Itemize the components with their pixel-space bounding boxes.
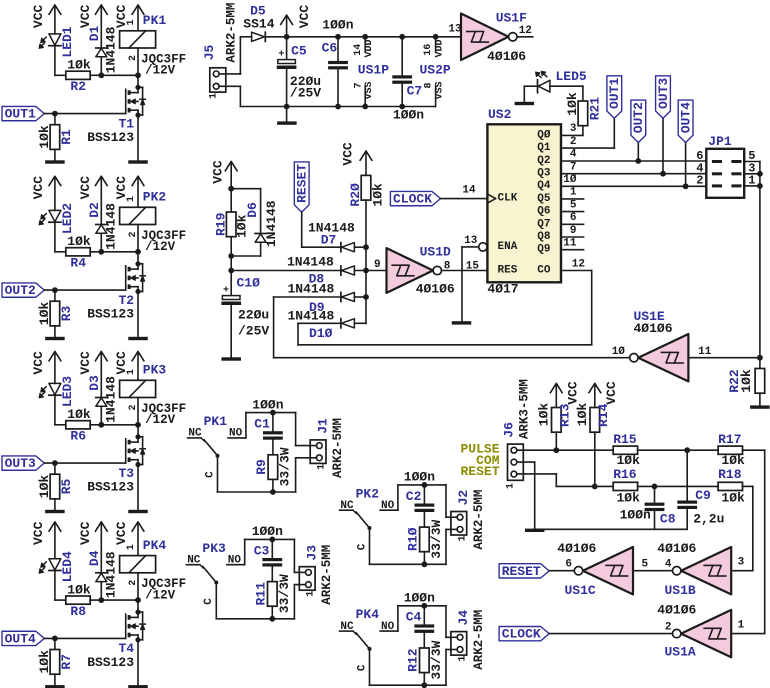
svg-text:11: 11 [563, 238, 577, 250]
diode D6 1N4148 [231, 189, 279, 256]
svg-text:2: 2 [696, 174, 703, 188]
diode D9 1N4148 [274, 282, 369, 316]
svg-text:22Øu: 22Øu [238, 308, 269, 323]
svg-text:VCC: VCC [297, 5, 312, 29]
wire [549, 570, 574, 572]
svg-text:ENA: ENA [498, 241, 518, 253]
svg-text:C3: C3 [254, 543, 270, 558]
wire (Q3 net) [561, 117, 706, 177]
wire (Q4 net) [561, 140, 706, 189]
wire [294, 539, 305, 572]
svg-text:2: 2 [570, 136, 577, 148]
resistor R17 10k [718, 432, 745, 468]
svg-text:BSS123: BSS123 [87, 480, 134, 495]
relay contact PK3 [186, 541, 244, 605]
net tag OUT2 [631, 100, 646, 142]
svg-text:1Øk: 1Øk [67, 58, 91, 73]
diode D5 SS14 [243, 4, 274, 42]
svg-text:RESET: RESET [502, 564, 541, 579]
wire [446, 650, 457, 686]
ground [45, 510, 65, 513]
resistor R7 10k [37, 638, 74, 685]
wire [446, 485, 457, 517]
inverter US1E 40106 [612, 309, 712, 381]
svg-text:1N4148: 1N4148 [104, 26, 119, 73]
svg-text:VCC: VCC [78, 351, 93, 375]
svg-text:D6: D6 [245, 202, 260, 218]
wire (J5 pin2 to VDD rail) [219, 37, 252, 74]
svg-text:ARK2-5MM: ARK2-5MM [472, 610, 486, 670]
svg-text:1Øk: 1Øk [565, 92, 580, 116]
svg-text:1: 1 [457, 656, 468, 662]
resistor R3 10k [37, 290, 74, 337]
relay contact PK4 [340, 607, 398, 671]
svg-text:C1: C1 [254, 417, 270, 432]
svg-text:BSS123: BSS123 [87, 130, 134, 145]
wire [296, 413, 317, 446]
power VCC arrow (LED3 branch) [31, 351, 61, 383]
svg-text:/12V: /12V [145, 64, 176, 78]
svg-text:3: 3 [738, 557, 745, 569]
svg-text:D1: D1 [87, 26, 102, 42]
wire [137, 398, 139, 425]
svg-text:VCC: VCC [78, 521, 93, 545]
svg-text:4Ø1Ø6: 4Ø1Ø6 [634, 321, 673, 336]
svg-text:LED3: LED3 [60, 376, 75, 407]
wire [137, 573, 139, 600]
svg-text:1ØØn: 1ØØn [404, 470, 435, 485]
resistor R11 33/3W [253, 567, 292, 619]
svg-text:PK3: PK3 [202, 541, 226, 556]
svg-text:C: C [204, 471, 216, 478]
svg-text:+: + [278, 49, 284, 60]
svg-text:1Øk: 1Øk [67, 234, 91, 249]
svg-text:C6: C6 [322, 41, 338, 56]
svg-text:4Ø1Ø6: 4Ø1Ø6 [416, 282, 455, 297]
ground [128, 160, 148, 163]
svg-text:1Øk: 1Øk [575, 403, 590, 427]
svg-text:1Øk: 1Øk [617, 491, 641, 506]
wire (source) [137, 465, 139, 510]
svg-text:CLOCK: CLOCK [502, 627, 541, 642]
net tag OUT3 [2, 456, 44, 471]
net tag OUT4 [2, 631, 44, 646]
svg-text:C: C [356, 664, 368, 671]
svg-text:R2Ø: R2Ø [348, 183, 363, 207]
capacitor C8 100n [620, 486, 676, 529]
resistor R4 10k [55, 234, 101, 271]
svg-text:1Øk: 1Øk [37, 125, 52, 149]
svg-text:1: 1 [570, 187, 577, 199]
svg-text:1Øk: 1Øk [37, 302, 52, 326]
pin stubs Q5-Q9 [561, 199, 584, 250]
svg-text:5: 5 [570, 199, 577, 211]
relay contact PK2 [340, 486, 398, 550]
svg-text:Q8: Q8 [537, 231, 551, 243]
inverter US1D 40106 [374, 245, 455, 297]
svg-text:BSS123: BSS123 [87, 307, 134, 322]
transistor T3 BSS123 [87, 434, 145, 494]
svg-text:VCC: VCC [341, 142, 356, 166]
svg-text:C1Ø: C1Ø [237, 276, 261, 291]
wire (OUT net) [44, 287, 125, 293]
svg-text:14: 14 [462, 184, 476, 196]
svg-text:US1P: US1P [358, 63, 389, 78]
power VCC arrow [280, 5, 312, 37]
wire [446, 529, 457, 564]
resistor R12 33/3W [405, 633, 444, 685]
svg-text:D7: D7 [321, 233, 337, 248]
power VCC arrow (PK1 coil branch) [114, 5, 145, 31]
svg-text:7: 7 [353, 82, 364, 88]
svg-text:R15: R15 [613, 432, 637, 447]
capacitor C3 100n [252, 524, 283, 566]
svg-text:J4: J4 [456, 610, 471, 626]
svg-text:R1: R1 [59, 129, 74, 145]
relay coil PK1 JQC3FF/12V [120, 13, 187, 78]
svg-text:ARK2-5MM: ARK2-5MM [224, 3, 238, 63]
ground [221, 357, 241, 360]
svg-text:1ØØn: 1ØØn [393, 108, 424, 123]
ground [128, 337, 148, 340]
svg-text:6: 6 [570, 212, 577, 224]
svg-text:R6: R6 [70, 429, 86, 444]
svg-text:LED4: LED4 [60, 551, 75, 582]
ground [452, 321, 472, 324]
power VCC arrow (PK2 coil branch) [114, 176, 145, 207]
wire VDD rail [265, 34, 461, 40]
power VCC arrow (LED2 branch) [31, 176, 61, 211]
net tag OUT3 [656, 76, 671, 118]
diode D3 1N4148 [87, 375, 119, 425]
resistor R10 33/3W [406, 512, 445, 564]
svg-text:1N4148: 1N4148 [288, 282, 335, 297]
capacitor C2 100n [404, 470, 435, 512]
capacitor C4 100n [404, 591, 435, 633]
svg-text:1N4148: 1N4148 [104, 376, 119, 423]
svg-text:1ØØn: 1ØØn [620, 508, 651, 523]
svg-text:R14: R14 [596, 403, 611, 427]
wire (NO to cap) [398, 482, 446, 510]
svg-text:12: 12 [519, 25, 532, 37]
power VCC arrow [210, 160, 237, 189]
svg-text:C5: C5 [291, 44, 307, 59]
net labels PULSE/COM/RESET [460, 442, 499, 479]
svg-text:16: 16 [423, 44, 434, 56]
svg-text:12: 12 [572, 258, 585, 270]
capacitor C5 220u/25V [277, 37, 322, 107]
wire (US1E out to D9) [274, 297, 630, 358]
svg-text:1: 1 [306, 591, 317, 597]
svg-text:C: C [356, 543, 368, 550]
svg-text:US1D: US1D [420, 245, 451, 260]
resistor R16 10k [613, 467, 640, 505]
resistor R18 10k [718, 467, 745, 505]
power VCC arrow (D4 branch) [78, 521, 108, 572]
capacitor C7 100n [392, 37, 424, 123]
net tag RESET (to D7) [294, 162, 309, 212]
svg-text:9: 9 [570, 225, 577, 237]
svg-text:CLK: CLK [498, 193, 518, 205]
wire (RESET row) [517, 474, 613, 489]
svg-text:1ØØn: 1ØØn [322, 18, 353, 33]
wire (drain) [137, 425, 139, 437]
svg-text:D1Ø: D1Ø [309, 326, 333, 341]
wire (CLK pin 14) [441, 198, 488, 200]
wire [137, 48, 139, 75]
diode D4 1N4148 [87, 550, 119, 600]
wire (diode common) [365, 247, 367, 323]
connector J6 ARK3-5MM [502, 379, 532, 489]
svg-text:1Øk: 1Øk [617, 453, 641, 468]
pin 13 label [448, 23, 462, 35]
LED LED2 [39, 203, 75, 234]
svg-text:LED1: LED1 [60, 26, 75, 57]
svg-text:OUT2: OUT2 [5, 283, 36, 298]
power VCC arrow [589, 381, 620, 407]
svg-text:VCC: VCC [114, 521, 129, 545]
wire (main node row) [231, 270, 341, 272]
svg-text:1Øk: 1Øk [371, 183, 386, 207]
wire (source) [137, 115, 139, 160]
svg-text:OUT4: OUT4 [5, 631, 36, 646]
svg-text:C7: C7 [407, 84, 423, 99]
svg-text:CLOCK: CLOCK [393, 192, 432, 207]
svg-text:1N4148: 1N4148 [288, 309, 335, 324]
svg-text:BSS123: BSS123 [87, 655, 134, 670]
resistor R19 10k [213, 189, 249, 256]
svg-text:R8: R8 [70, 604, 86, 619]
relay coil PK3 JQC3FF/12V [120, 363, 187, 428]
svg-text:1: 1 [738, 620, 745, 632]
svg-text:D4: D4 [87, 550, 102, 566]
wire (common rail) [370, 649, 447, 688]
transistor T4 BSS123 [87, 610, 145, 670]
resistor R20 10k [348, 175, 386, 247]
wire (Q0 to R21) [561, 134, 583, 136]
wire (PULSE row) [517, 447, 613, 453]
svg-text:ARK2-5MM: ARK2-5MM [331, 418, 345, 478]
svg-text:Q3: Q3 [537, 168, 551, 180]
svg-text:J1: J1 [316, 418, 331, 434]
diode D1 1N4148 [87, 26, 119, 76]
svg-text:OUT1: OUT1 [5, 107, 36, 122]
svg-text:1Øk: 1Øk [739, 369, 754, 393]
resistor R15 10k [613, 432, 640, 468]
wire (OUT net) [44, 636, 125, 642]
svg-text:14: 14 [353, 44, 364, 56]
svg-text:1ØØn: 1ØØn [404, 591, 435, 606]
svg-text:ARK2-5MM: ARK2-5MM [320, 545, 334, 605]
svg-text:C2: C2 [406, 489, 422, 504]
svg-text:3: 3 [570, 123, 577, 135]
svg-text:R9: R9 [254, 459, 269, 475]
wire (common rail) [370, 528, 447, 567]
svg-text:/12V: /12V [145, 589, 176, 603]
connector J3 ARK2-5MM [299, 545, 334, 605]
wire (Q2 net) [561, 140, 706, 164]
svg-text:7: 7 [570, 161, 577, 173]
transistor T2 BSS123 [87, 261, 145, 321]
LED LED3 [39, 376, 75, 407]
svg-text:1Ø: 1Ø [563, 174, 577, 186]
svg-text:US2P: US2P [420, 63, 451, 78]
svg-text:1Øk: 1Øk [721, 491, 745, 506]
wire (NO to cap) [246, 410, 296, 438]
svg-text:1: 1 [506, 483, 517, 489]
wire (filter ground rail) [535, 528, 688, 530]
net tag OUT2 [2, 283, 44, 298]
svg-text:LED2: LED2 [60, 203, 75, 234]
svg-text:VCC: VCC [604, 381, 619, 405]
svg-text:J2: J2 [456, 490, 471, 506]
wire (gate node) [98, 249, 141, 255]
svg-text:33/3W: 33/3W [429, 640, 444, 679]
svg-text:J3: J3 [305, 545, 320, 561]
svg-text:US2: US2 [488, 107, 512, 122]
svg-text:33/3W: 33/3W [277, 574, 292, 613]
svg-text:PK2: PK2 [143, 190, 167, 205]
svg-text:C9: C9 [695, 488, 711, 503]
power VCC arrow (PK3 coil branch) [114, 351, 145, 380]
svg-text:ARK2-5MM: ARK2-5MM [472, 490, 486, 550]
svg-text:1Øk: 1Øk [67, 407, 91, 422]
wire (drain) [137, 75, 139, 87]
power VCC arrow [550, 381, 581, 407]
ground [515, 102, 535, 105]
node (R19/D6) [228, 186, 234, 259]
svg-text:8: 8 [424, 82, 435, 88]
wire [550, 86, 583, 101]
resistor R13 10k [536, 403, 572, 451]
wire (source) [137, 292, 139, 337]
svg-text:RESET: RESET [460, 464, 499, 479]
svg-text:1N4148: 1N4148 [104, 203, 119, 250]
ground [45, 337, 65, 340]
diode D10 1N4148 [288, 309, 367, 342]
inverter US1B 40106 [657, 541, 744, 598]
svg-text:VCC: VCC [31, 176, 46, 200]
relay coil PK4 JQC3FF/12V [120, 538, 187, 603]
wire (OUT net) [44, 460, 125, 466]
wire (JP1 pins 5/3/1 common) [744, 162, 763, 358]
svg-text:C4: C4 [406, 610, 422, 625]
LED LED5 [536, 69, 587, 93]
svg-text:R12: R12 [405, 648, 420, 672]
resistor R22 10k [727, 358, 765, 406]
wire [638, 484, 719, 490]
wire (gate node) [98, 72, 141, 78]
wire (source) [137, 640, 139, 685]
wire (CO pin 12 to D10) [298, 271, 592, 345]
net tag CLOCK (output) [499, 627, 549, 642]
svg-text:6: 6 [565, 559, 572, 571]
resistor R6 10k [55, 407, 101, 444]
svg-text:Q5: Q5 [537, 193, 551, 205]
capacitor C1 100n [252, 397, 283, 439]
power VCC arrow (LED4 branch) [31, 521, 61, 558]
svg-text:VSS: VSS [364, 81, 375, 99]
power VCC arrow (D1 branch) [78, 5, 108, 48]
svg-text:4: 4 [570, 149, 577, 161]
svg-text:5: 5 [642, 559, 649, 571]
svg-text:4Ø1Ø6: 4Ø1Ø6 [557, 541, 596, 556]
resistor R9 33/3W [254, 440, 293, 492]
svg-text:1Øk: 1Øk [536, 403, 551, 427]
svg-text:PK3: PK3 [143, 363, 167, 378]
svg-text:R4: R4 [70, 256, 86, 271]
power VCC arrow [341, 142, 373, 175]
capacitor C6 100n [322, 18, 354, 107]
svg-text:VCC: VCC [31, 521, 46, 545]
wire (gate node) [98, 422, 141, 428]
ground [128, 685, 148, 688]
svg-text:JP1: JP1 [708, 134, 732, 149]
relay contact PK1 [188, 414, 246, 478]
svg-text:4Ø17: 4Ø17 [487, 281, 518, 296]
svg-text:1N4148: 1N4148 [287, 254, 334, 269]
IC US2 4017 [462, 107, 585, 296]
wire VSS rail [240, 104, 435, 110]
svg-text:1: 1 [126, 544, 137, 550]
svg-text:1: 1 [126, 19, 137, 25]
svg-text:OUT2: OUT2 [631, 102, 646, 133]
svg-text:33/3W: 33/3W [429, 520, 444, 559]
svg-text:/25V: /25V [290, 85, 321, 100]
wire [549, 633, 672, 635]
svg-text:RES: RES [498, 265, 518, 277]
svg-text:R7: R7 [59, 654, 74, 670]
wire (OUT net) [44, 111, 125, 117]
diode D7 1N4148 [308, 220, 369, 252]
svg-text:R11: R11 [253, 582, 268, 606]
svg-text:4: 4 [665, 559, 672, 571]
svg-text:OUT1: OUT1 [607, 78, 622, 109]
connector J5 ARK2-5MM [202, 3, 238, 99]
svg-text:US1A: US1A [665, 644, 696, 659]
svg-text:13: 13 [464, 235, 478, 247]
diode D8 1N4148 [287, 254, 387, 286]
wire [54, 395, 56, 425]
net tag OUT4 [678, 100, 693, 142]
svg-text:9: 9 [374, 259, 381, 271]
transistor T1 BSS123 [87, 85, 145, 145]
svg-text:PK4: PK4 [356, 607, 380, 622]
svg-text:4Ø1Ø6: 4Ø1Ø6 [657, 603, 696, 618]
svg-text:VCC: VCC [78, 176, 93, 200]
power VCC arrow (D3 branch) [78, 351, 108, 397]
svg-text:1ØØn: 1ØØn [252, 397, 283, 412]
svg-text:US1C: US1C [565, 583, 596, 598]
svg-text:1Øk: 1Øk [67, 582, 91, 597]
svg-text:R21: R21 [587, 97, 602, 121]
svg-text:1N4148: 1N4148 [264, 200, 279, 247]
svg-text:2,2u: 2,2u [693, 512, 724, 527]
inverter US1F 40106 [461, 11, 527, 64]
wire (common rail) [216, 583, 294, 622]
svg-text:R1Ø: R1Ø [406, 527, 421, 551]
svg-text:Q4: Q4 [537, 180, 551, 192]
capacitor C10 220u/25V [221, 271, 269, 358]
ground [525, 529, 545, 532]
svg-text:VCC: VCC [78, 5, 93, 29]
wire (COM to ground) [517, 462, 535, 528]
net tag CLOCK (to CLK) [390, 191, 440, 206]
wire (pin 12 output) [517, 25, 533, 37]
diode D2 1N4148 [87, 202, 119, 252]
wire (US1E input) [688, 355, 762, 361]
pin header JP1 [696, 134, 755, 198]
